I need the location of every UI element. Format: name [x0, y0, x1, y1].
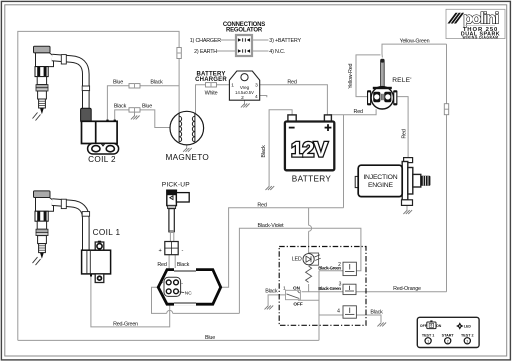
svg-text:BATTERY: BATTERY: [292, 175, 332, 184]
svg-text:1: 1: [283, 285, 286, 291]
svg-text:Blue: Blue: [113, 80, 123, 86]
svg-text:1: 1: [231, 83, 234, 89]
svg-text:Red-Green: Red-Green: [113, 321, 138, 327]
svg-text:1: 1: [427, 339, 429, 343]
svg-text:MAGNETO: MAGNETO: [165, 153, 209, 162]
svg-text:Red: Red: [401, 129, 407, 138]
svg-text:3: 3: [255, 83, 258, 89]
svg-text:2: 2: [338, 262, 341, 268]
svg-text:-: -: [181, 281, 183, 287]
svg-text:OFF: OFF: [293, 301, 303, 306]
svg-text:3: 3: [466, 339, 468, 343]
svg-text:+: +: [160, 281, 163, 287]
svg-text:TEST 1: TEST 1: [422, 333, 435, 337]
svg-text:LED: LED: [464, 324, 471, 328]
svg-text:LED: LED: [292, 257, 302, 263]
svg-text:Red: Red: [257, 202, 266, 208]
svg-text:ON: ON: [293, 285, 301, 290]
svg-text:4: 4: [255, 94, 258, 100]
svg-text:2: 2: [241, 95, 244, 101]
svg-text:CHARGER: CHARGER: [195, 77, 227, 83]
svg-text:Red-Orange: Red-Orange: [393, 286, 421, 292]
svg-text:Black: Black: [150, 80, 163, 86]
svg-text:Red: Red: [354, 109, 363, 115]
svg-text:Black: Black: [114, 104, 127, 110]
svg-text:12V: 12V: [291, 139, 328, 162]
svg-text:Blue: Blue: [205, 335, 215, 341]
svg-text:Blue: Blue: [142, 104, 152, 110]
svg-text:Yellow-Red: Yellow-Red: [348, 63, 354, 88]
svg-text:Yellow-Green: Yellow-Green: [400, 39, 430, 45]
svg-text:White: White: [205, 90, 218, 96]
svg-text:14.5±0.5V: 14.5±0.5V: [235, 90, 254, 95]
svg-text:Black-Violet: Black-Violet: [258, 223, 285, 229]
svg-text:COIL 2: COIL 2: [88, 155, 116, 164]
svg-text:INJECTION: INJECTION: [363, 174, 397, 181]
svg-text:Red: Red: [157, 262, 166, 268]
svg-text:Black: Black: [177, 262, 190, 268]
svg-text:3) +BATTERY: 3) +BATTERY: [269, 38, 301, 44]
svg-text:RELE': RELE': [392, 77, 411, 84]
svg-text:ENGINE: ENGINE: [368, 182, 394, 189]
svg-text:Red: Red: [287, 79, 296, 85]
svg-text:PICK-UP: PICK-UP: [162, 181, 191, 188]
svg-text:ON: ON: [436, 324, 442, 328]
svg-text:Black: Black: [261, 145, 267, 158]
svg-text:WIRING DIAGRAM: WIRING DIAGRAM: [463, 36, 499, 40]
svg-text:4: 4: [337, 309, 340, 315]
svg-text:Black: Black: [370, 309, 383, 315]
svg-text:1) CHARGER: 1) CHARGER: [190, 38, 222, 44]
svg-text:3: 3: [339, 281, 342, 287]
svg-text:-: -: [181, 248, 183, 254]
svg-text:0: 0: [431, 324, 433, 328]
svg-text:COIL 1: COIL 1: [93, 228, 121, 237]
svg-text:2: 2: [447, 339, 449, 343]
svg-text:START: START: [442, 333, 455, 337]
svg-text:NC: NC: [185, 291, 192, 297]
svg-text:polini: polini: [463, 11, 499, 28]
svg-text:Black: Black: [265, 289, 278, 295]
svg-text:REGOLATOR: REGOLATOR: [226, 28, 263, 34]
svg-text:4) N.C.: 4) N.C.: [269, 49, 285, 55]
svg-text:+: +: [159, 248, 162, 254]
svg-text:2) EARTH: 2) EARTH: [194, 49, 217, 55]
svg-text:TEST 2: TEST 2: [461, 333, 474, 337]
